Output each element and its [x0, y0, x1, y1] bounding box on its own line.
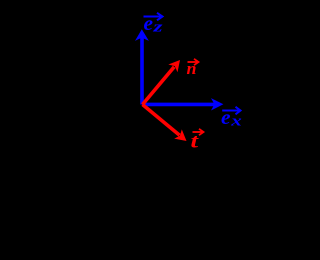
svg-text:n: n: [187, 59, 197, 78]
svg-text:e: e: [221, 107, 231, 129]
svg-text:z: z: [152, 20, 163, 36]
svg-text:e: e: [144, 13, 154, 35]
svg-text:x: x: [230, 113, 243, 129]
